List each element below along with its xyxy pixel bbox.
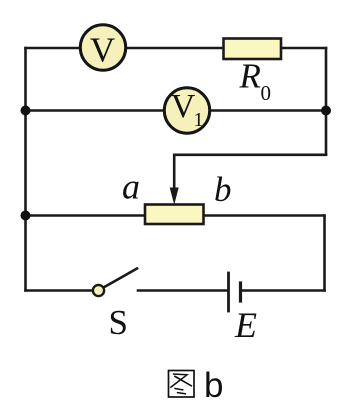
svg-text:E: E bbox=[234, 305, 257, 345]
svg-text:R: R bbox=[239, 57, 261, 96]
svg-text:V: V bbox=[90, 31, 115, 70]
svg-text:0: 0 bbox=[261, 81, 272, 105]
svg-text:b: b bbox=[204, 366, 223, 405]
svg-text:V: V bbox=[171, 88, 196, 125]
svg-text:1: 1 bbox=[194, 109, 204, 131]
svg-text:S: S bbox=[109, 303, 128, 342]
svg-text:a: a bbox=[122, 167, 140, 207]
svg-text:b: b bbox=[214, 170, 232, 209]
